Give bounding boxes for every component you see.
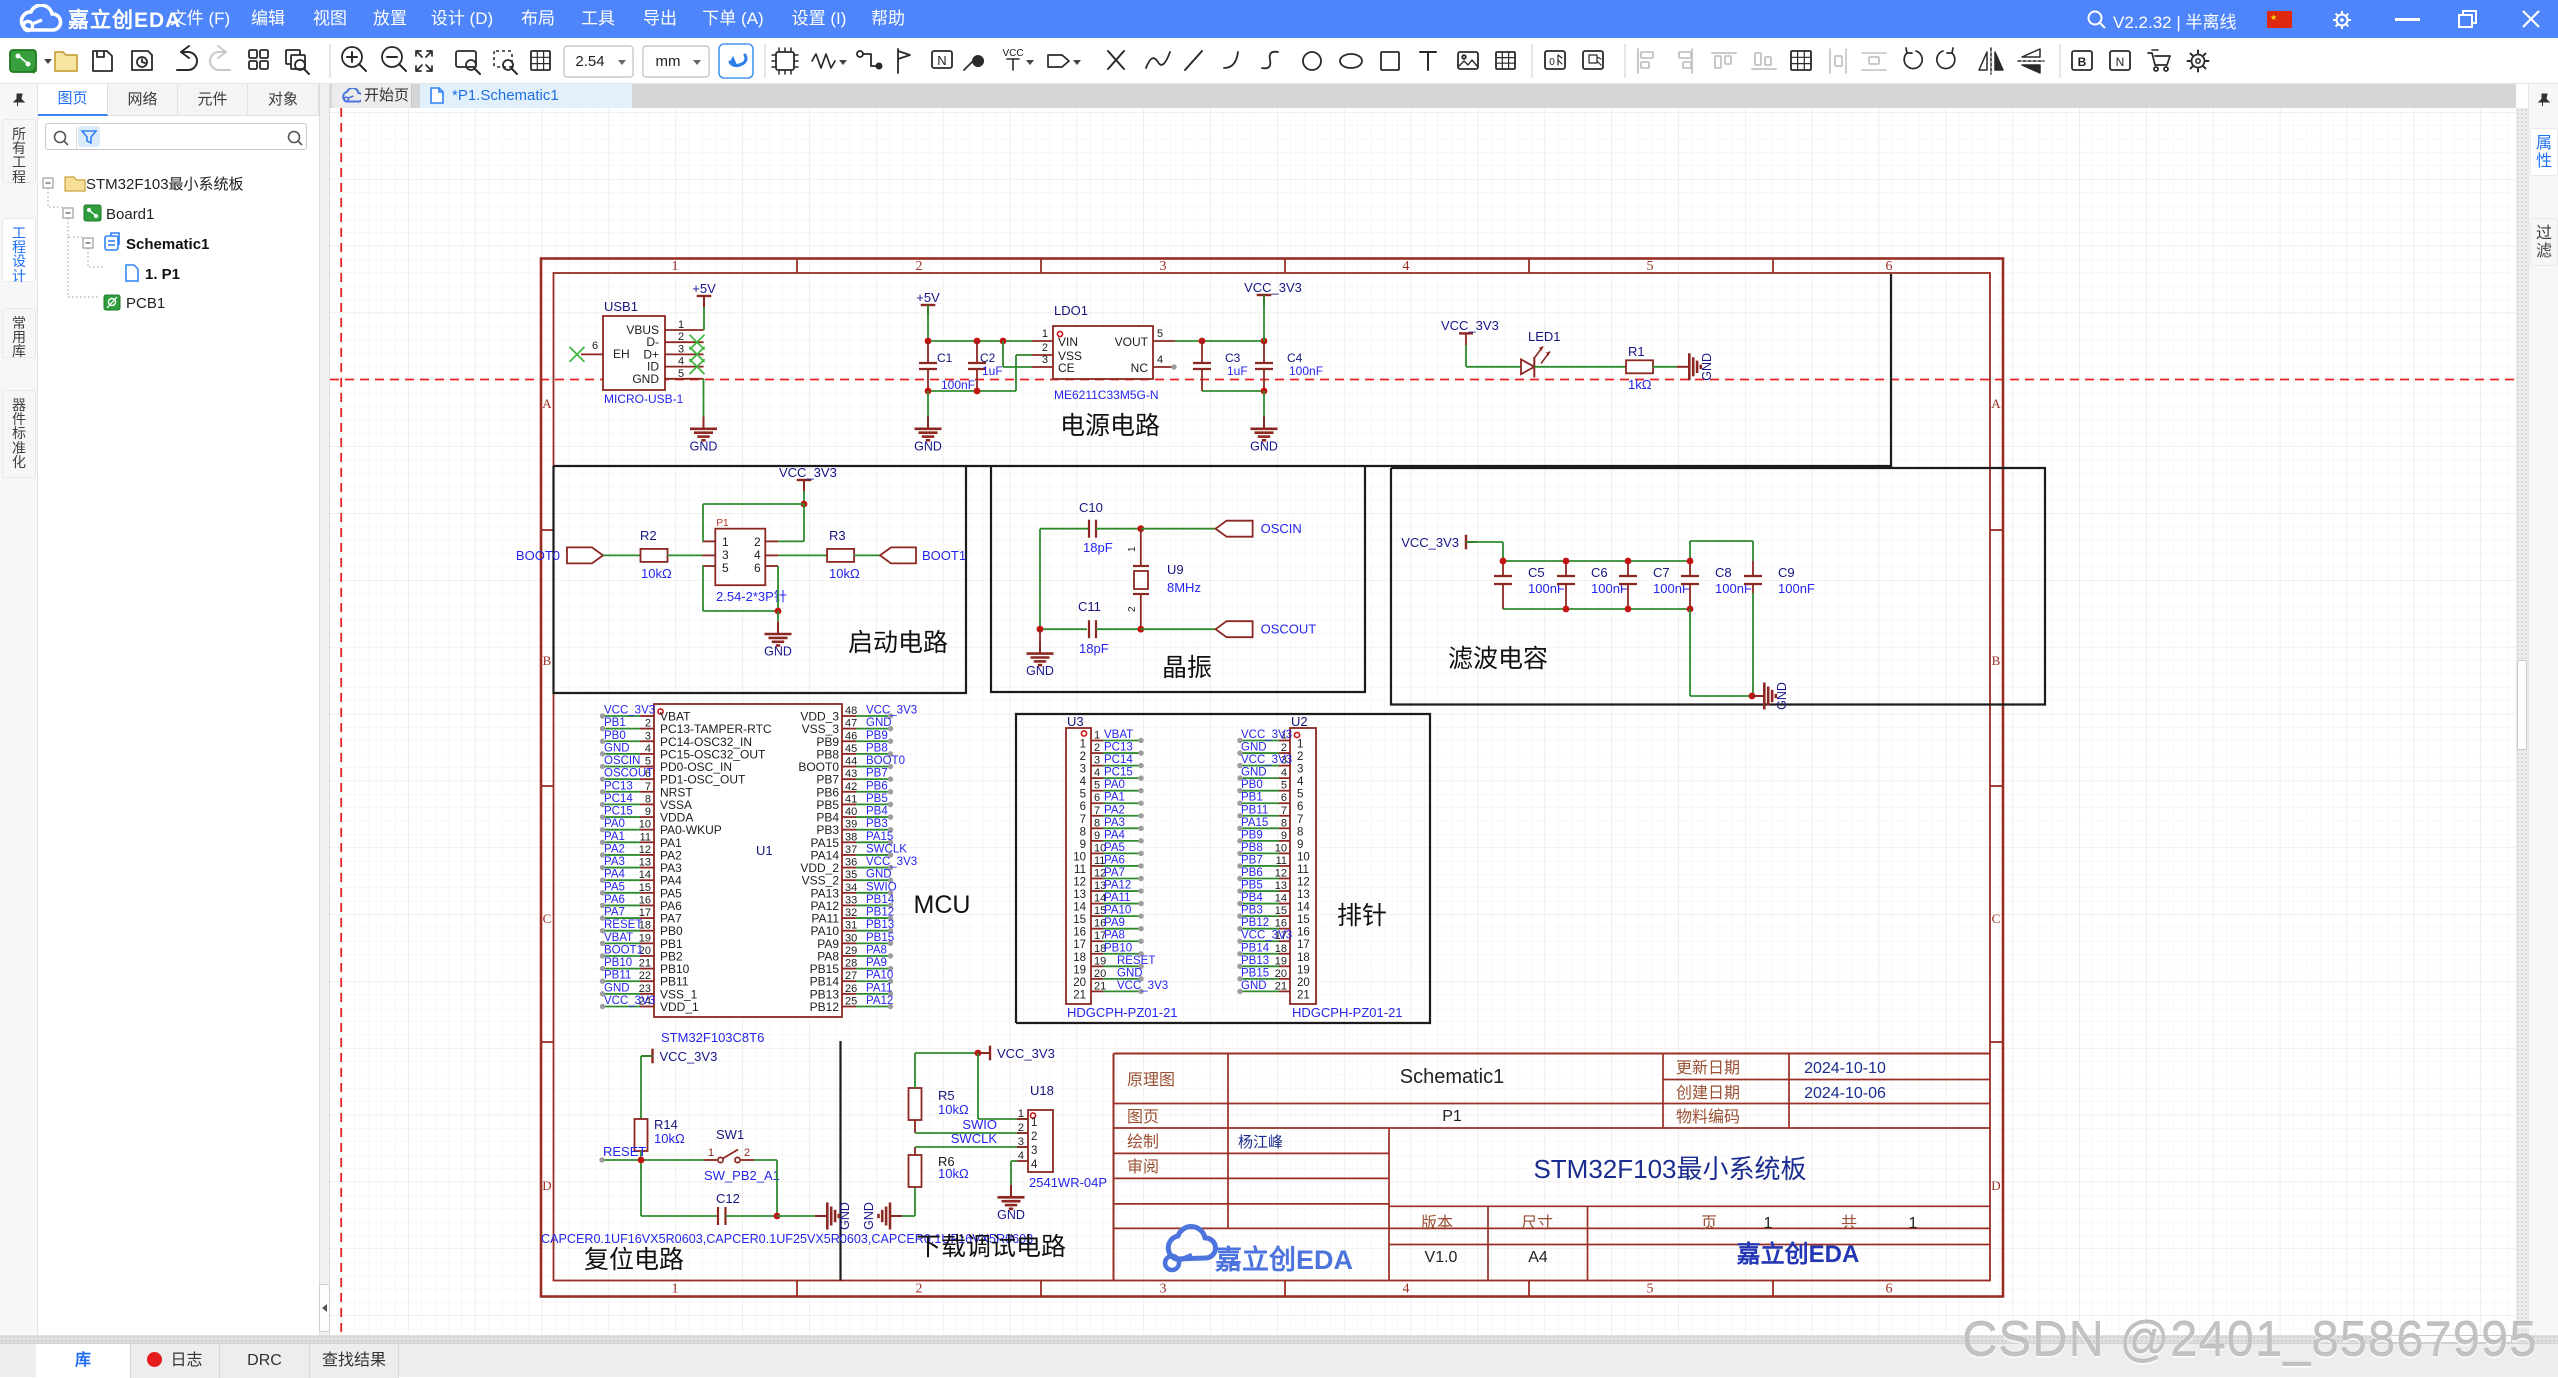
svg-text:PB4: PB4 xyxy=(1241,892,1263,904)
svg-text:PB5: PB5 xyxy=(1241,880,1263,892)
svg-text:9: 9 xyxy=(1297,839,1303,851)
svg-text:5: 5 xyxy=(1297,789,1303,801)
capacitor C4 xyxy=(1255,362,1273,364)
svg-text:PA1: PA1 xyxy=(604,831,625,843)
svg-text:N: N xyxy=(937,53,946,68)
svg-text:10kΩ: 10kΩ xyxy=(641,566,672,581)
svg-text:10kΩ: 10kΩ xyxy=(938,1102,969,1117)
junction C2 top xyxy=(974,338,981,345)
header section box xyxy=(1016,714,1430,1023)
svg-text:R1: R1 xyxy=(1628,344,1645,359)
svg-text:2: 2 xyxy=(744,1147,750,1159)
U3 pin 21 net VCC_3V3 xyxy=(1091,990,1103,992)
title block table xyxy=(1114,1053,1991,1055)
ground (debug left) xyxy=(890,1215,902,1217)
svg-text:8: 8 xyxy=(645,793,651,805)
svg-text:23: 23 xyxy=(639,983,651,995)
svg-text:R2: R2 xyxy=(640,528,657,543)
U3 pin 11 net PA6 xyxy=(1091,865,1103,867)
svg-text:STM32F103最小系统板: STM32F103最小系统板 xyxy=(86,175,244,193)
U1 pin 16 PA6 / net PA6 xyxy=(640,904,654,906)
svg-text:15: 15 xyxy=(1275,905,1287,917)
wire R5 top to VCC xyxy=(914,1053,916,1088)
svg-text:Schematic1: Schematic1 xyxy=(126,236,209,253)
svg-text:100nF: 100nF xyxy=(941,378,975,392)
svg-text:GND: GND xyxy=(866,869,892,881)
svg-text:4: 4 xyxy=(1157,354,1163,366)
U2 pin 13 net PB5 xyxy=(1279,890,1290,892)
U1 pin 2 PC13-TAMPER-RTC / net PB1 xyxy=(640,728,654,730)
left panel xyxy=(38,84,319,1335)
svg-text:PCB1: PCB1 xyxy=(126,295,165,312)
svg-text:GND: GND xyxy=(862,1202,876,1230)
U2 pin 6 net PB1 xyxy=(1279,802,1290,804)
svg-text:绘制: 绘制 xyxy=(1127,1133,1159,1151)
U1 pin 31 PA10 / net PB13 xyxy=(842,930,856,932)
svg-text:5: 5 xyxy=(1647,259,1654,274)
svg-text:35: 35 xyxy=(845,869,857,881)
svg-text:11: 11 xyxy=(1297,864,1309,876)
search row xyxy=(45,123,307,150)
capacitor C3 xyxy=(1193,362,1211,364)
svg-text:6: 6 xyxy=(1080,801,1086,813)
U1 pin 48 VDD_3 / net VCC_3V3 xyxy=(842,715,856,717)
U1 pin 1 VBAT / net VCC_3V3 xyxy=(640,715,654,717)
switch SW1 xyxy=(704,1159,717,1161)
svg-text:2: 2 xyxy=(1042,342,1048,354)
svg-text:3: 3 xyxy=(1031,1145,1037,1157)
svg-text:页: 页 xyxy=(1701,1215,1717,1232)
svg-text:10: 10 xyxy=(1297,851,1310,863)
svg-text:20: 20 xyxy=(1094,968,1106,980)
resistor R2 xyxy=(641,549,668,562)
svg-text:16: 16 xyxy=(639,894,651,906)
capacitor C2 xyxy=(968,362,986,364)
svg-text:+: + xyxy=(30,63,38,78)
svg-text:13: 13 xyxy=(1073,889,1086,901)
svg-text:PB10: PB10 xyxy=(1104,942,1132,954)
svg-text:1: 1 xyxy=(678,319,684,331)
wire GND stem (boot) xyxy=(777,611,779,622)
svg-text:6: 6 xyxy=(1886,259,1893,274)
wire VIN rail xyxy=(928,340,1032,342)
svg-text:GND: GND xyxy=(838,1202,852,1230)
svg-text:VCC_3V3: VCC_3V3 xyxy=(1244,280,1302,295)
svg-text:PA10: PA10 xyxy=(1104,905,1131,917)
U1 pin 7 NRST / net PC13 xyxy=(640,791,654,793)
U2 pin 5 net PB0 xyxy=(1279,790,1290,792)
junction C1 bottom xyxy=(925,388,932,395)
svg-text:2: 2 xyxy=(1281,742,1287,754)
svg-text:C8: C8 xyxy=(1715,565,1732,580)
svg-text:CE: CE xyxy=(1058,361,1075,375)
svg-text:14: 14 xyxy=(639,869,651,881)
svg-text:3: 3 xyxy=(1297,764,1303,776)
U1 pin 6 PD1-OSC_OUT / net OSCOUT xyxy=(640,778,654,780)
svg-text:+5V: +5V xyxy=(916,290,940,305)
svg-text:10: 10 xyxy=(1073,851,1086,863)
svg-text:PB7: PB7 xyxy=(1241,854,1263,866)
svg-text:PA0: PA0 xyxy=(604,818,625,830)
svg-text:4: 4 xyxy=(678,356,684,368)
capacitor C6 xyxy=(1557,575,1575,577)
svg-text:12: 12 xyxy=(1275,867,1287,879)
U2 pin 4 net GND xyxy=(1279,777,1290,779)
U1 pin 36 VDD_2 / net VCC_3V3 xyxy=(842,867,856,869)
svg-text:1: 1 xyxy=(1094,730,1100,742)
svg-text:PB5: PB5 xyxy=(866,793,888,805)
U1 pin 9 VDDA / net PC15 xyxy=(640,816,654,818)
svg-text:PB6: PB6 xyxy=(866,780,888,792)
svg-text:PA15: PA15 xyxy=(866,831,893,843)
wire R5 bottom to SWIO xyxy=(914,1120,916,1133)
svg-text:21: 21 xyxy=(1297,989,1310,1001)
svg-text:12: 12 xyxy=(1073,876,1086,888)
svg-text:5: 5 xyxy=(1647,1282,1654,1297)
svg-text:启动电路: 启动电路 xyxy=(848,629,948,657)
U1 pin 4 PC15-OSC32_OUT / net GND xyxy=(640,753,654,755)
svg-text:OSCOUT: OSCOUT xyxy=(1261,622,1317,637)
wire BOOT0 to R2 xyxy=(603,554,641,556)
sheet inner border xyxy=(554,273,1991,1281)
junction filter GND xyxy=(1749,693,1756,700)
LDO1 pin VIN xyxy=(1032,340,1053,342)
origin crosshair dashed xyxy=(340,108,342,1335)
svg-text:17: 17 xyxy=(639,907,651,919)
wire R3 to BOOT1 xyxy=(854,554,880,556)
power flag +5V (USB) xyxy=(697,295,712,297)
svg-text:VCC_3V3: VCC_3V3 xyxy=(1441,318,1499,333)
junctions filter bottom rail xyxy=(1563,606,1570,613)
wire SW1 to C12 node xyxy=(754,1159,777,1161)
svg-text:PC15: PC15 xyxy=(604,806,633,818)
svg-text:VCC_3V3: VCC_3V3 xyxy=(779,465,837,480)
svg-text:A: A xyxy=(542,396,552,411)
svg-text:4: 4 xyxy=(1403,259,1410,274)
svg-text:GND: GND xyxy=(1026,664,1054,678)
U1 pin 25 PB12 / net PA12 xyxy=(842,1005,856,1007)
svg-text:18: 18 xyxy=(1073,952,1086,964)
ground (debug) xyxy=(1010,1185,1012,1197)
svg-text:12: 12 xyxy=(1297,876,1310,888)
svg-text:7: 7 xyxy=(645,781,651,793)
svg-text:SWIO: SWIO xyxy=(866,881,897,893)
svg-text:3: 3 xyxy=(1018,1136,1024,1148)
svg-text:PB0: PB0 xyxy=(1241,779,1263,791)
svg-text:Schematic1: Schematic1 xyxy=(1400,1066,1505,1088)
U2 pin 9 net PB9 xyxy=(1279,840,1290,842)
svg-text:42: 42 xyxy=(845,781,857,793)
svg-text:V1.0: V1.0 xyxy=(1425,1249,1458,1266)
svg-text:嘉立创EDA: 嘉立创EDA xyxy=(1215,1244,1353,1275)
svg-text:RESET: RESET xyxy=(603,1144,646,1159)
svg-text:6: 6 xyxy=(592,340,598,352)
wire C12 to GND xyxy=(777,1215,815,1217)
wire SWCLK xyxy=(915,1146,1028,1148)
wire GND to R6 xyxy=(902,1215,915,1217)
U1 pin 14 PA4 / net PA4 xyxy=(640,879,654,881)
U1 pin 45 PB8 / net PB8 xyxy=(842,753,856,755)
wire filter bridge C8 C9 xyxy=(1689,541,1691,561)
svg-text:PC14: PC14 xyxy=(1104,754,1133,766)
svg-text:PA4: PA4 xyxy=(1104,829,1125,841)
power flag VCC_3V3 (debug) xyxy=(989,1046,991,1061)
svg-text:尺寸: 尺寸 xyxy=(1521,1214,1553,1232)
svg-text:28: 28 xyxy=(845,958,857,970)
wire filter to GND xyxy=(1689,609,1691,696)
U3 pin 9 net PA4 xyxy=(1091,840,1103,842)
svg-text:6: 6 xyxy=(754,561,761,575)
svg-text:嘉立创EDA: 嘉立创EDA xyxy=(1737,1240,1860,1268)
svg-text:GND: GND xyxy=(604,982,630,994)
svg-text:1: 1 xyxy=(1127,546,1138,552)
U1 pin 27 PB14 / net PA10 xyxy=(842,980,856,982)
svg-text:MICRO-USB-1: MICRO-USB-1 xyxy=(604,392,684,406)
junction CE branch xyxy=(1000,338,1007,345)
svg-text:mm: mm xyxy=(656,53,681,70)
column ticks top/bottom xyxy=(796,259,798,274)
U3 pin 15 net PA10 xyxy=(1091,915,1103,917)
svg-text:VBAT: VBAT xyxy=(1104,729,1133,741)
U1 pin 41 PB5 / net PB5 xyxy=(842,803,856,805)
svg-text:C11: C11 xyxy=(1078,599,1101,614)
svg-text:19: 19 xyxy=(1275,955,1287,967)
U3 pin 1 net VBAT xyxy=(1091,740,1103,742)
LDO1 pin NC xyxy=(1153,366,1172,368)
svg-text:PB8: PB8 xyxy=(866,742,888,754)
U3 pin 2 net PC13 xyxy=(1091,752,1103,754)
svg-text:18: 18 xyxy=(1275,943,1287,955)
svg-text:18pF: 18pF xyxy=(1079,641,1109,656)
capacitor C7 xyxy=(1619,575,1637,577)
svg-text:SW1: SW1 xyxy=(716,1127,744,1142)
U1 pin 23 VSS_1 / net GND xyxy=(640,993,654,995)
wire VCC_3V3 to rail xyxy=(1263,295,1265,341)
svg-text:19: 19 xyxy=(639,932,651,944)
svg-text:PB3: PB3 xyxy=(866,818,888,830)
crystal U9 xyxy=(1140,529,1142,566)
wire SWIO xyxy=(915,1132,1028,1134)
right strip xyxy=(2528,84,2558,1335)
svg-text:8: 8 xyxy=(1080,826,1086,838)
schematic canvas xyxy=(330,108,2516,1335)
bottom scrollbar xyxy=(0,1335,2558,1343)
U1 pin 22 PB11 / net PB11 xyxy=(640,980,654,982)
svg-text:EH: EH xyxy=(613,347,630,361)
svg-text:PA12: PA12 xyxy=(1104,880,1131,892)
svg-text:审阅: 审阅 xyxy=(1127,1158,1159,1176)
svg-text:41: 41 xyxy=(845,793,857,805)
svg-text:6: 6 xyxy=(1281,792,1287,804)
svg-text:9: 9 xyxy=(1281,830,1287,842)
svg-text:GND: GND xyxy=(1700,353,1714,381)
svg-text:VCC_3V3: VCC_3V3 xyxy=(604,995,655,1007)
svg-text:C9: C9 xyxy=(1778,565,1795,580)
svg-text:C5: C5 xyxy=(1528,565,1545,580)
svg-text:U18: U18 xyxy=(1030,1083,1054,1098)
svg-text:3: 3 xyxy=(722,548,729,562)
wire filter top rail xyxy=(1503,560,1690,562)
header U3 body xyxy=(1066,728,1091,1004)
svg-text:杨江峰: 杨江峰 xyxy=(1238,1134,1283,1151)
svg-text:PA3: PA3 xyxy=(604,856,625,868)
junction C3 top xyxy=(1199,338,1206,345)
svg-text:26: 26 xyxy=(845,983,857,995)
svg-text:PA8: PA8 xyxy=(866,944,887,956)
svg-text:1kΩ: 1kΩ xyxy=(1628,377,1652,392)
U1 pin 21 PB10 / net PB10 xyxy=(640,968,654,970)
svg-text:PB0: PB0 xyxy=(604,730,626,742)
svg-text:9: 9 xyxy=(1094,830,1100,842)
svg-text:20: 20 xyxy=(1073,977,1086,989)
wire filter bottom rail xyxy=(1503,608,1690,610)
U3 pin 19 net RESET xyxy=(1091,965,1103,967)
wire +5V to VBUS xyxy=(703,307,705,330)
USB1 right pins 1-5 xyxy=(665,329,704,331)
U1 pin 44 BOOT0 / net BOOT0 xyxy=(842,766,856,768)
svg-text:2024-10-06: 2024-10-06 xyxy=(1804,1085,1886,1102)
wire +5V down to rail xyxy=(927,305,929,341)
svg-text:PA6: PA6 xyxy=(1104,854,1125,866)
svg-text:电源电路: 电源电路 xyxy=(1060,412,1160,440)
svg-text:18: 18 xyxy=(1297,952,1310,964)
svg-text:排针: 排针 xyxy=(1337,902,1387,930)
wire VCC to filter rail xyxy=(1466,541,1503,543)
svg-text:B: B xyxy=(543,653,552,668)
U1 pin 18 PB0 / net RESET xyxy=(640,930,654,932)
svg-text:10kΩ: 10kΩ xyxy=(654,1131,685,1146)
svg-text:PB13: PB13 xyxy=(1241,955,1269,967)
svg-text:1uF: 1uF xyxy=(1227,364,1248,378)
junction R14/RESET xyxy=(638,1157,645,1164)
svg-text:38: 38 xyxy=(845,831,857,843)
svg-text:4: 4 xyxy=(645,743,651,755)
svg-text:4: 4 xyxy=(1094,767,1100,779)
wire R6 to SWCLK xyxy=(914,1147,916,1155)
svg-text:43: 43 xyxy=(845,768,857,780)
U2 pin 19 net PB13 xyxy=(1279,965,1290,967)
svg-text:Board1: Board1 xyxy=(106,206,154,223)
svg-text:晶振: 晶振 xyxy=(1162,654,1212,682)
U18 pin 4 xyxy=(1017,1160,1028,1162)
svg-text:R3: R3 xyxy=(829,528,846,543)
svg-text:RESET: RESET xyxy=(1117,955,1155,967)
ground (LED) xyxy=(1677,366,1689,368)
svg-text:RESET: RESET xyxy=(604,919,642,931)
svg-text:5: 5 xyxy=(1157,328,1163,340)
svg-text:21: 21 xyxy=(1073,989,1086,1001)
svg-text:8: 8 xyxy=(1281,817,1287,829)
wire VOUT rail xyxy=(1175,340,1264,342)
wire VCC to LED xyxy=(1465,345,1467,367)
wire VCC to R14 xyxy=(641,1055,653,1057)
svg-text:R14: R14 xyxy=(654,1117,678,1132)
svg-text:LED1: LED1 xyxy=(1528,329,1561,344)
svg-text:C6: C6 xyxy=(1591,565,1608,580)
svg-text:+5V: +5V xyxy=(692,281,716,296)
U1 pin 24 VDD_1 / net VCC_3V3 xyxy=(640,1005,654,1007)
svg-text:1: 1 xyxy=(1031,1117,1037,1129)
ground (filter) xyxy=(1752,695,1764,697)
U1 pin 11 PA1 / net PA1 xyxy=(640,841,654,843)
svg-text:18pF: 18pF xyxy=(1083,540,1113,555)
svg-text:3: 3 xyxy=(1094,755,1100,767)
svg-text:6: 6 xyxy=(1886,1282,1893,1297)
U1 pin 30 PA9 / net PB15 xyxy=(842,942,856,944)
U2 pin 17 net VCC_3V3 xyxy=(1279,940,1290,942)
svg-text:VCC_3V3: VCC_3V3 xyxy=(660,1049,718,1064)
svg-text:PB6: PB6 xyxy=(1241,867,1263,879)
svg-text:8: 8 xyxy=(1297,826,1303,838)
svg-text:VCC_3V3: VCC_3V3 xyxy=(1117,980,1168,992)
svg-text:PB14: PB14 xyxy=(866,894,895,906)
U3 pin 14 net PA11 xyxy=(1091,903,1103,905)
U1 pin 19 PB1 / net VBAT xyxy=(640,942,654,944)
svg-text:GND: GND xyxy=(1775,682,1789,710)
svg-text:12: 12 xyxy=(639,844,651,856)
net port OSCIN xyxy=(1216,521,1253,537)
svg-text:5: 5 xyxy=(645,756,651,768)
U1 pin 46 PB9 / net PB9 xyxy=(842,740,856,742)
svg-text:PB12: PB12 xyxy=(1241,917,1269,929)
crystal section box xyxy=(991,466,1365,692)
svg-text:GND: GND xyxy=(632,372,659,386)
svg-text:U3: U3 xyxy=(1067,714,1084,729)
resistor R14 xyxy=(635,1119,648,1151)
svg-text:44: 44 xyxy=(845,756,857,768)
svg-text:PA3: PA3 xyxy=(1104,817,1125,829)
svg-text:VCC_3V3: VCC_3V3 xyxy=(1401,535,1459,550)
U3 pin 17 net PA8 xyxy=(1091,940,1103,942)
svg-text:5: 5 xyxy=(678,368,684,380)
svg-text:PB14: PB14 xyxy=(1241,942,1270,954)
svg-text:3: 3 xyxy=(678,343,684,355)
wire R14 to C12 xyxy=(640,1151,642,1216)
svg-text:B: B xyxy=(1992,653,2001,668)
svg-text:6: 6 xyxy=(1094,792,1100,804)
junction C4 top xyxy=(1261,338,1268,345)
svg-text:VCC_3V3: VCC_3V3 xyxy=(1241,754,1292,766)
wire to OSCOUT xyxy=(1141,628,1216,630)
U1 pin 47 VSS_3 / net GND xyxy=(842,728,856,730)
svg-text:原理图: 原理图 xyxy=(1127,1072,1175,1089)
svg-text:VCC_3V3: VCC_3V3 xyxy=(1241,729,1292,741)
project tree xyxy=(38,170,319,430)
svg-text:45: 45 xyxy=(845,743,857,755)
U3 pin 20 net GND xyxy=(1091,978,1103,980)
svg-text:PA7: PA7 xyxy=(1104,867,1125,879)
svg-text:6: 6 xyxy=(1297,801,1303,813)
svg-text:30: 30 xyxy=(845,932,857,944)
header U2 body xyxy=(1290,728,1316,1004)
U1 pin 5 PD0-OSC_IN / net OSCIN xyxy=(640,766,654,768)
ground (crystal) xyxy=(1039,641,1041,653)
U2 pin 3 net VCC_3V3 xyxy=(1279,765,1290,767)
svg-text:PB1: PB1 xyxy=(1241,792,1263,804)
svg-text:PA15: PA15 xyxy=(1241,817,1268,829)
junctions filter top rail xyxy=(1500,558,1507,565)
svg-text:3: 3 xyxy=(645,730,651,742)
svg-text:2: 2 xyxy=(1127,606,1138,612)
svg-text:2: 2 xyxy=(916,259,923,274)
svg-text:LDO1: LDO1 xyxy=(1054,303,1088,318)
svg-text:17: 17 xyxy=(1073,939,1086,951)
U1 pin 42 PB6 / net PB6 xyxy=(842,791,856,793)
wire VSS to bottom rail xyxy=(1016,354,1032,356)
ground (LDO out) xyxy=(1263,417,1265,429)
svg-text:PB7: PB7 xyxy=(866,768,888,780)
svg-text:2.54: 2.54 xyxy=(575,53,604,70)
